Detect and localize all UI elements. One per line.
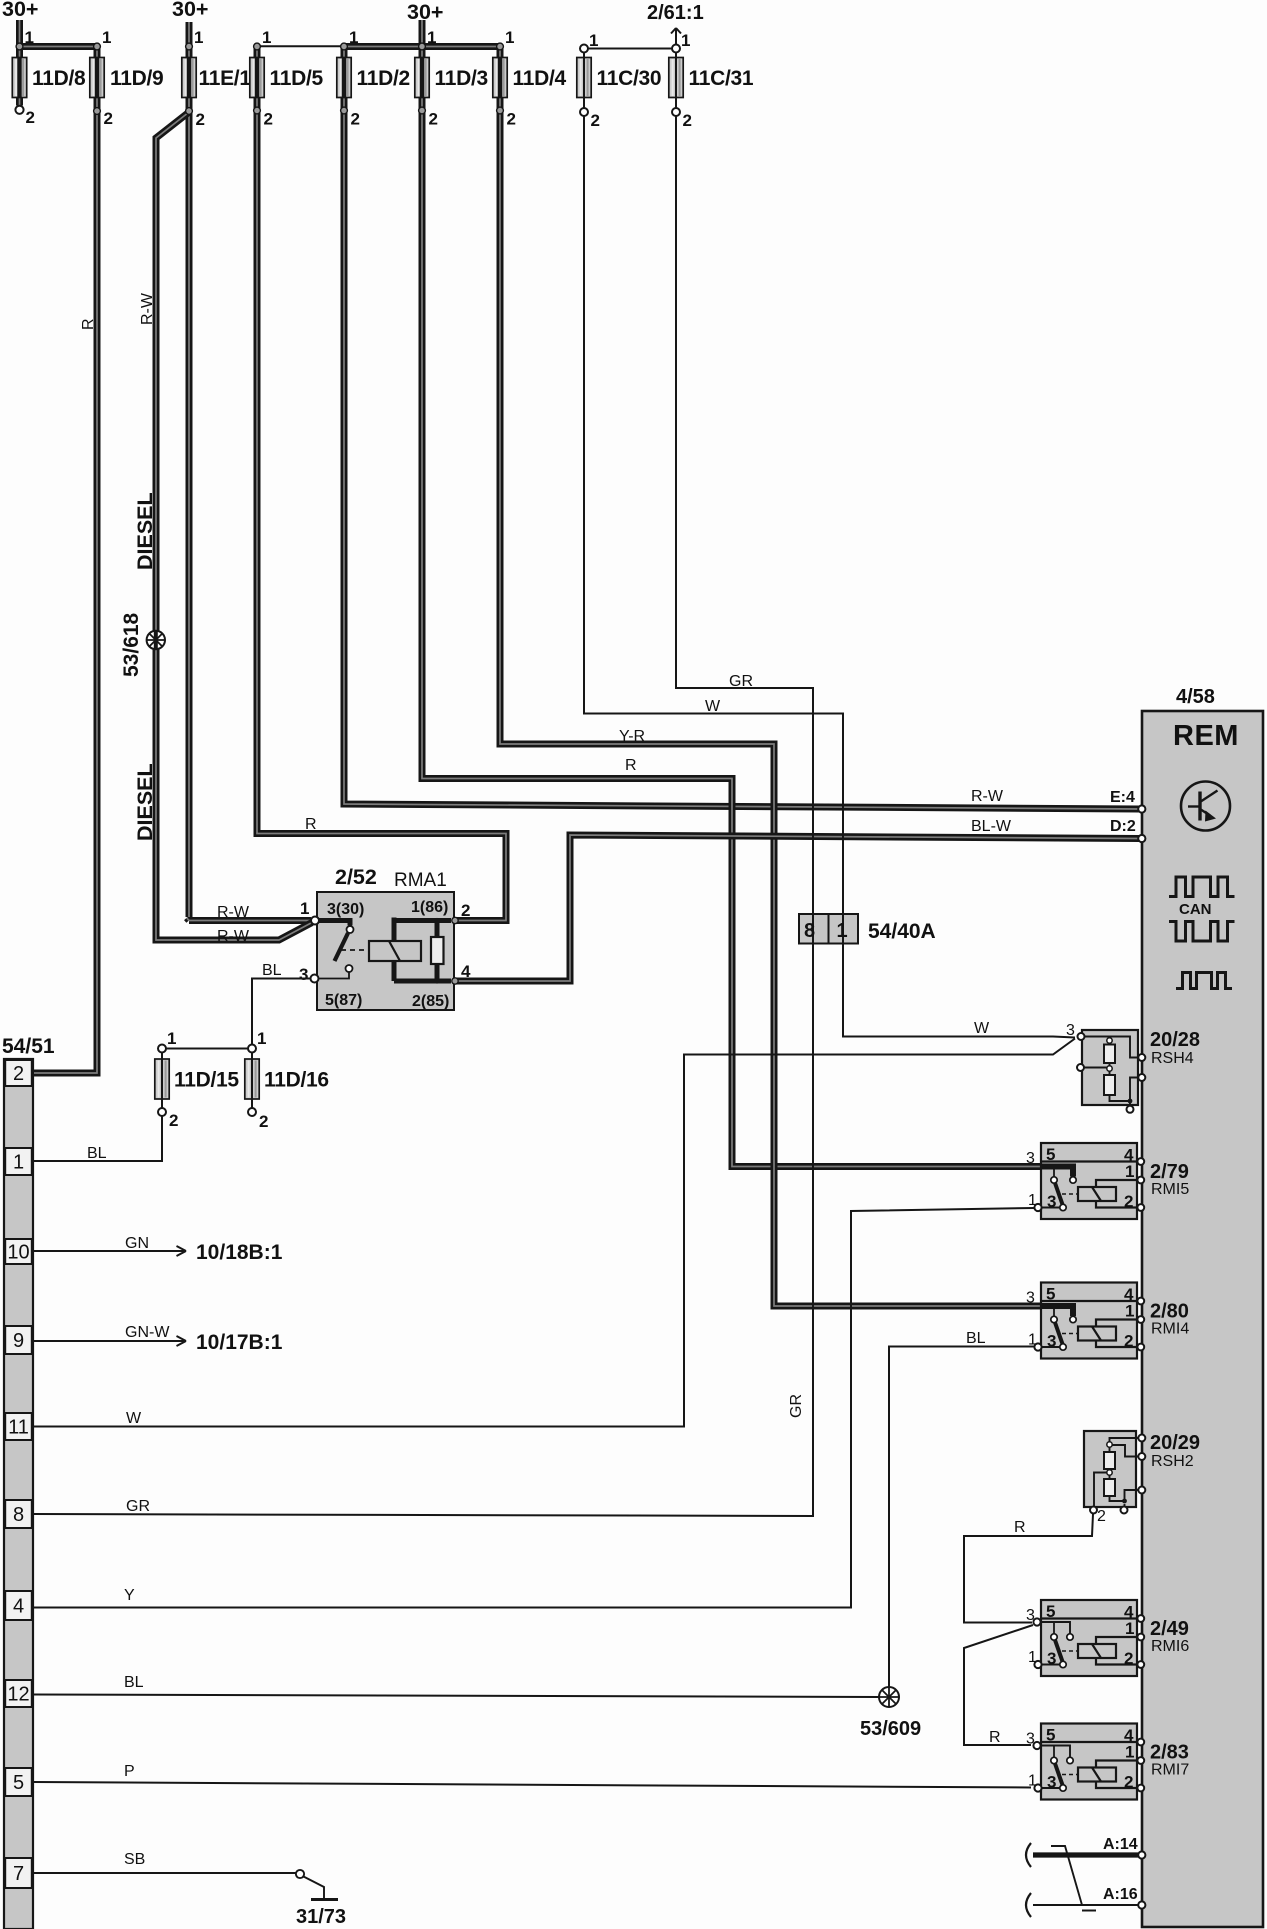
svg-text:RMI4: RMI4: [1151, 1321, 1189, 1338]
terminal 2 of 11C/30: [580, 108, 588, 116]
twisted pair symbol: [1051, 1846, 1096, 1911]
svg-text:5(87): 5(87): [325, 992, 362, 1009]
svg-text:R: R: [989, 1729, 1001, 1746]
svg-text:R: R: [1014, 1519, 1026, 1536]
svg-text:2: 2: [1124, 1649, 1133, 1668]
pin label 1 (2/52 left top): [300, 899, 309, 918]
label terminal 5(87): [325, 992, 362, 1009]
svg-text:2/79: 2/79: [1150, 1161, 1189, 1183]
label CAN: [1179, 901, 1212, 918]
fuse 11D/2: [337, 58, 410, 98]
pin label 3 (2/52 left bottom): [299, 965, 308, 984]
pin label 4 of 2/80: [1124, 1285, 1134, 1304]
pin label 4 of 2/49: [1124, 1603, 1134, 1622]
wire GN-W from 54/51 pin 9 with arrow: [34, 1336, 186, 1346]
label GN-W: [125, 1324, 170, 1341]
svg-text:11E/1: 11E/1: [199, 67, 252, 90]
label RMI6: [1151, 1638, 1189, 1655]
label 10/17B:1: [196, 1331, 283, 1354]
node 2 of 11D/2: [341, 107, 348, 114]
node 2 of 11D/4: [497, 107, 504, 114]
svg-text:2: 2: [1097, 1508, 1106, 1525]
pin label 5 of 2/49: [1046, 1602, 1055, 1621]
svg-text:BL: BL: [87, 1145, 107, 1162]
svg-text:P: P: [124, 1763, 135, 1780]
svg-text:R: R: [80, 318, 97, 330]
REM pin at 2/80 row 4: [1137, 1298, 1144, 1305]
pin label 2 (fuse area 9): [351, 110, 360, 129]
terminal 1 of 11D/16: [248, 1045, 256, 1053]
pin label 1 of 2/79: [1125, 1162, 1134, 1181]
node 1 junction at 2/52 pin 1: [311, 917, 319, 925]
svg-text:1(86): 1(86): [411, 899, 448, 916]
pin label 2 (fuse area 7): [264, 110, 273, 129]
external pin label 3 of 2/79: [1026, 1150, 1035, 1167]
module 4/58 REM body: [1142, 711, 1263, 1927]
node 2 of 11E/1: [186, 108, 193, 115]
svg-text:5: 5: [13, 1772, 24, 1794]
svg-text:5: 5: [1046, 1602, 1055, 1621]
label terminal 3(30): [327, 901, 364, 918]
svg-text:1: 1: [1028, 1773, 1037, 1790]
fuse 11D/15: [155, 1059, 240, 1099]
svg-text:A:16: A:16: [1103, 1886, 1138, 1903]
svg-text:W: W: [705, 698, 721, 715]
pin label 1 of 2/80: [1125, 1302, 1134, 1321]
wire 30+ bus over fuses 11D/2 11D/3 11D/4: [344, 43, 500, 50]
pin label 1 (fuse area 4): [194, 28, 203, 47]
svg-text:1: 1: [427, 28, 436, 47]
pin label 2 (fuse area 11): [429, 110, 438, 129]
terminal 3 of 20/28: [1078, 1033, 1085, 1040]
wire R-W from 30+ through fuse 11E/1 to node at 2/52 pin 1: [187, 22, 311, 921]
svg-text:SB: SB: [124, 1851, 145, 1868]
pin label 3 of 2/79: [1047, 1192, 1056, 1211]
label RSH2: [1151, 1453, 1194, 1470]
fuse 11C/30: [577, 58, 661, 98]
pin label 3 of 2/49: [1047, 1649, 1056, 1668]
pin label 1 of 2/83: [1125, 1743, 1134, 1762]
connector 54/51 pin 8 cell: [5, 1500, 32, 1528]
svg-text:12: 12: [7, 1684, 29, 1706]
svg-text:30+: 30+: [172, 0, 208, 21]
svg-text:3: 3: [1047, 1649, 1056, 1668]
label 53/609: [860, 1718, 921, 1740]
svg-text:W: W: [974, 1020, 990, 1037]
label GR (11C/31 branch): [729, 673, 753, 690]
REM pin at 2/49 row 2: [1137, 1661, 1144, 1668]
label RMA1: [394, 870, 447, 891]
svg-text:8: 8: [804, 920, 815, 942]
connector 54/40A: [799, 914, 858, 944]
REM pin at 20/29 bottom: [1138, 1487, 1145, 1494]
svg-text:Y-R: Y-R: [619, 728, 645, 745]
connector 54/51 pin 1 cell: [5, 1148, 32, 1175]
external pin label 3 of 2/83: [1026, 1731, 1035, 1748]
terminal (unused) of 20/29: [1121, 1507, 1128, 1514]
svg-text:3: 3: [299, 965, 308, 984]
wire R-W from fuse 11D/2 to REM pin E:4: [344, 47, 1139, 810]
terminal 2 of 20/29: [1090, 1507, 1097, 1514]
pin label 3 of 2/80: [1047, 1332, 1056, 1351]
pin label 4 of 2/83: [1124, 1726, 1134, 1745]
fuse 11D/9: [90, 58, 164, 98]
square wave output symbol: [1176, 973, 1232, 989]
label 2/80: [1150, 1301, 1189, 1323]
label W (at 20/28): [974, 1020, 990, 1037]
pin label 3 of 2/83: [1047, 1773, 1056, 1792]
svg-text:2: 2: [1124, 1332, 1133, 1351]
label GR (vertical run): [788, 1394, 805, 1418]
label BL-W (to REM D:2): [971, 818, 1012, 835]
wire Y-R from fuse 11D/4 to relay 2/80 pin 3: [500, 47, 1042, 1307]
label GN: [125, 1235, 149, 1252]
wire BL from 54/51 pin 1: [34, 1160, 156, 1162]
pin label 2 of 2/49: [1124, 1649, 1133, 1668]
svg-text:1: 1: [1028, 1332, 1037, 1349]
svg-text:11C/31: 11C/31: [689, 67, 754, 90]
svg-text:1: 1: [262, 28, 271, 47]
label REM: [1173, 720, 1239, 752]
svg-text:3: 3: [1047, 1192, 1056, 1211]
relay 2/83 RMI7 body: [1041, 1724, 1137, 1800]
svg-text:DIESEL: DIESEL: [133, 492, 157, 570]
svg-text:1: 1: [589, 31, 598, 50]
svg-text:GN: GN: [125, 1235, 149, 1252]
label R (11D/9 wire): [80, 318, 97, 330]
svg-text:54/51: 54/51: [2, 1035, 55, 1058]
wire BL from 54/51 pin 12 to splice 53/609: [34, 1695, 879, 1698]
ground 31/73: [296, 1870, 338, 1900]
REM pin at 20/29 middle: [1138, 1453, 1145, 1460]
label 2/79: [1150, 1161, 1189, 1183]
svg-text:BL: BL: [966, 1330, 986, 1347]
node 1 of 11D/8: [16, 43, 23, 50]
label 54/40A: [868, 920, 936, 943]
wire BL from splice 53/609 to 2/80 pin 1: [889, 1347, 1034, 1688]
svg-text:10: 10: [7, 1242, 29, 1264]
terminal 1 of 2/80: [1034, 1343, 1041, 1350]
wire R from 20/29 pin 2 to 2/49 pin 3: [964, 1514, 1093, 1623]
relay 2/79 switch: [1038, 1167, 1078, 1211]
terminal 2 of 11D/8: [15, 106, 23, 114]
fuse 11D/16: [245, 1059, 329, 1099]
label pin D:2: [1110, 818, 1136, 835]
svg-text:2: 2: [591, 111, 600, 130]
pin label 2 (fuse area 3): [104, 109, 113, 128]
pin label 1 of 11D/16: [257, 1029, 266, 1048]
REM pin A:14: [1138, 1851, 1145, 1858]
REM pin at 2/83 row 2: [1137, 1785, 1144, 1792]
external pin label 3 of 2/80: [1026, 1290, 1035, 1307]
pin label 2 (fuse area 1): [26, 108, 35, 127]
svg-text:20/29: 20/29: [1150, 1432, 1200, 1454]
REM pin at 2/83 row 1: [1137, 1757, 1144, 1764]
svg-text:11C/30: 11C/30: [597, 67, 662, 90]
label 10/18B:1: [196, 1241, 283, 1264]
wire BL from fuse 11D/15 to 54/51 pin 1: [34, 1053, 162, 1162]
svg-text:GR: GR: [729, 673, 753, 690]
terminal 3 of 2/49: [1033, 1618, 1040, 1625]
wire BL from 2/52 pin 3 to fuse 11D/16: [252, 979, 311, 1045]
connector 54/51 pin 12 cell: [5, 1680, 32, 1707]
svg-text:2/49: 2/49: [1150, 1618, 1189, 1640]
CAN square wave lower (inverted): [1169, 922, 1235, 942]
wire link 11C/30 to 11C/31 pin 1: [584, 48, 676, 50]
fuse 11C/31: [669, 58, 754, 98]
relay 2/49 RMI6 body: [1041, 1600, 1137, 1676]
wire A:14 (twisted, cut): [1026, 1843, 1138, 1867]
svg-text:BL-W: BL-W: [971, 818, 1012, 835]
label 54/51: [2, 1035, 55, 1058]
svg-text:3: 3: [1066, 1022, 1075, 1039]
connector 54/51 pin 5 cell: [5, 1768, 32, 1796]
label RMI4: [1151, 1321, 1189, 1338]
fuse 11D/8: [12, 58, 86, 98]
label SB (pin 7 wire): [124, 1851, 145, 1868]
svg-text:1: 1: [167, 1029, 176, 1048]
svg-text:1: 1: [1125, 1743, 1134, 1762]
relay 2/80 switch: [1038, 1306, 1078, 1350]
svg-text:2: 2: [26, 108, 35, 127]
wire R from fuse 11D/5 to 2/52 pin 2: [257, 47, 506, 921]
svg-text:1: 1: [25, 28, 34, 47]
pin label 1 (fuse area 14): [589, 31, 598, 50]
label 31/73: [296, 1906, 346, 1928]
REM pin at 2/80 row 1: [1137, 1316, 1144, 1323]
svg-text:3: 3: [1026, 1290, 1035, 1307]
svg-text:E:4: E:4: [1110, 789, 1135, 806]
REM pin at 2/80 row 2: [1137, 1344, 1144, 1351]
svg-text:D:2: D:2: [1110, 818, 1136, 835]
relay 2/52 internal coil circuit: [369, 918, 451, 984]
svg-text:5: 5: [1046, 1726, 1055, 1745]
svg-text:1: 1: [1125, 1302, 1134, 1321]
label pin E:4: [1110, 789, 1135, 806]
svg-text:R-W: R-W: [217, 904, 250, 921]
svg-text:BL: BL: [262, 962, 282, 979]
relay 2/52 RMA1 body: [317, 892, 454, 1010]
terminal 1 of 11D/15: [158, 1045, 166, 1053]
arrow to 2/61:1: [671, 28, 681, 45]
svg-text:RSH4: RSH4: [1151, 1050, 1194, 1067]
label R (11D/3 branch): [625, 757, 637, 774]
svg-text:1: 1: [1028, 1192, 1037, 1209]
svg-text:53/609: 53/609: [860, 1718, 921, 1740]
svg-text:2: 2: [264, 110, 273, 129]
svg-text:10/17B:1: 10/17B:1: [196, 1331, 283, 1354]
svg-text:2: 2: [429, 110, 438, 129]
label 2/52: [335, 865, 377, 889]
pin label 1 (fuse area 8): [349, 28, 358, 47]
relay 2/79 RMI5 body: [1041, 1143, 1137, 1219]
label R-W (11E/1 branch): [217, 904, 250, 921]
svg-text:2: 2: [259, 1112, 268, 1131]
pin label 2 (fuse area 5): [196, 110, 205, 129]
node 1 of 11E/1: [186, 43, 193, 50]
svg-text:11D/9: 11D/9: [110, 67, 163, 90]
node 2 of 11D/9: [94, 108, 101, 115]
svg-text:2: 2: [104, 109, 113, 128]
REM pin at 20/29 top: [1138, 1435, 1145, 1442]
connector 54/51 pin 7 cell: [5, 1858, 32, 1888]
wire BL-W from 2/52 pin 4 to REM pin D:2: [455, 835, 1139, 981]
label W (11C/30 branch): [705, 698, 721, 715]
pin label 5 of 2/79: [1046, 1145, 1055, 1164]
svg-text:1: 1: [1125, 1619, 1134, 1638]
svg-text:1: 1: [13, 1152, 24, 1174]
svg-text:1: 1: [102, 28, 111, 47]
REM pin at 20/28 upper: [1138, 1054, 1145, 1061]
terminal 1 of 11C/30: [580, 45, 588, 53]
svg-text:30+: 30+: [2, 0, 38, 21]
label R (20/29 wire): [1014, 1519, 1026, 1536]
external pin label 1 of 2/80: [1028, 1332, 1037, 1349]
terminal 1 of 2/83: [1034, 1784, 1041, 1791]
label RMI7: [1151, 1762, 1189, 1779]
svg-text:REM: REM: [1173, 720, 1239, 752]
wire R from fuse 11D/9 to 54/51 pin 2: [34, 47, 97, 1074]
pin label 2 of 2/79: [1124, 1192, 1133, 1211]
label A:16: [1103, 1886, 1138, 1903]
pin label 2 of 20/29: [1097, 1508, 1106, 1525]
terminal 2 of 11D/16: [248, 1108, 256, 1116]
svg-text:2/80: 2/80: [1150, 1301, 1189, 1323]
label R-W (diesel branch): [217, 928, 250, 945]
REM pin at 2/83 row 4: [1137, 1739, 1144, 1746]
connector 54/51 pin 2 cell: [5, 1060, 32, 1086]
splice 53/609: [879, 1687, 899, 1707]
svg-text:1: 1: [1028, 1649, 1037, 1666]
wire Y from 54/51 pin 4 to 2/79 pin 1: [34, 1208, 1034, 1608]
svg-text:2: 2: [169, 1111, 178, 1130]
svg-text:1: 1: [194, 28, 203, 47]
svg-text:2/83: 2/83: [1150, 1742, 1189, 1764]
svg-text:1: 1: [300, 899, 309, 918]
label BL (pin 12 wire): [124, 1674, 144, 1691]
svg-text:R-W: R-W: [139, 292, 156, 325]
pin label 1 (fuse area 0): [25, 28, 34, 47]
svg-text:4/58: 4/58: [1176, 686, 1215, 708]
REM pin D:2: [1138, 835, 1145, 842]
svg-text:3: 3: [1026, 1607, 1035, 1624]
svg-text:20/28: 20/28: [1150, 1029, 1200, 1051]
label BL (pin 1 wire): [87, 1145, 107, 1162]
20/29 internal resistors: [1094, 1438, 1141, 1506]
REM pin A:16: [1138, 1901, 1145, 1908]
label Y (pin 4 wire): [124, 1587, 135, 1604]
wire R from fuse 11D/3 to relay 2/79 pin 3: [422, 20, 1042, 1167]
pin label 2 of 2/80: [1124, 1332, 1133, 1351]
external pin label 1 of 2/79: [1028, 1192, 1037, 1209]
label Y-R (11D/4 branch): [619, 728, 645, 745]
terminal 1 of 2/49: [1034, 1661, 1041, 1668]
relay 2/49 switch: [1038, 1622, 1078, 1668]
svg-text:GR: GR: [788, 1394, 805, 1418]
pin label 1 (fuse area 6): [262, 28, 271, 47]
terminal pin 3 of 2/52: [311, 975, 319, 983]
label 2/61:1: [647, 2, 704, 24]
svg-text:11D/4: 11D/4: [513, 67, 567, 90]
svg-text:1: 1: [505, 28, 514, 47]
wire R-W DIESEL branch to node at 2/52 pin 1: [156, 113, 312, 941]
node 1 of 11D/2: [341, 43, 348, 50]
svg-text:10/18B:1: 10/18B:1: [196, 1241, 283, 1264]
label W (pin 11 wire): [126, 1410, 142, 1427]
relay 2/52 switch: [315, 921, 369, 979]
external pin label 3 of 2/49: [1026, 1607, 1035, 1624]
connector 54/51 pin 4 cell: [5, 1591, 32, 1620]
REM pin at 20/28 lower: [1138, 1074, 1145, 1081]
svg-text:BL: BL: [124, 1674, 144, 1691]
svg-text:R-W: R-W: [217, 928, 250, 945]
wire W from 54/51 pin 11 to 20/28 pin 3: [34, 1039, 1075, 1427]
relay 2/80 internal rows and coil: [1041, 1301, 1137, 1347]
external pin label 1 of 2/83: [1028, 1773, 1037, 1790]
fuse 11D/4: [493, 58, 567, 98]
svg-text:5: 5: [1046, 1285, 1055, 1304]
connector 54/51 pin 11 cell: [5, 1413, 32, 1440]
svg-text:GR: GR: [126, 1498, 150, 1515]
svg-text:3: 3: [1026, 1150, 1035, 1167]
svg-text:11D/2: 11D/2: [357, 67, 410, 90]
svg-text:1: 1: [1125, 1162, 1134, 1181]
svg-text:RSH2: RSH2: [1151, 1453, 1194, 1470]
svg-text:2: 2: [13, 1063, 24, 1085]
label RSH4: [1151, 1050, 1194, 1067]
transistor output symbol inside REM: [1181, 782, 1230, 831]
label GR (pin 8 wire): [126, 1498, 150, 1515]
label P (pin 5 wire): [124, 1763, 135, 1780]
label R (2/83 wire): [989, 1729, 1001, 1746]
svg-text:A:14: A:14: [1103, 1836, 1138, 1853]
label DIESEL upper: [133, 492, 157, 570]
relay 2/83 switch: [1038, 1746, 1078, 1792]
svg-text:RMI5: RMI5: [1151, 1181, 1189, 1198]
wire link 11D/15 to 11D/16 pin 1: [162, 1048, 252, 1050]
relay 2/49 internal rows and coil: [1041, 1619, 1137, 1665]
node pin 4 of 2/52: [452, 978, 458, 984]
wire GN from 54/51 pin 10 with arrow: [34, 1246, 186, 1256]
node 1 of 11D/4: [497, 43, 504, 50]
pin label 2 of 11D/15: [169, 1111, 178, 1130]
wire 30+ feed through fuse 11D/8 column: [16, 20, 23, 106]
wire P from 54/51 pin 5 to 2/83 pin 1: [34, 1782, 1031, 1788]
svg-text:1: 1: [257, 1029, 266, 1048]
power feed 30+ (right): [407, 0, 443, 24]
svg-text:11: 11: [8, 1417, 29, 1439]
node 2 of 11D/3: [419, 107, 426, 114]
label R-W (to REM E:4): [971, 788, 1004, 805]
fuse 11D/5: [250, 58, 324, 98]
label DIESEL lower: [133, 763, 157, 841]
pin label 1 of 11D/15: [167, 1029, 176, 1048]
svg-text:2: 2: [196, 110, 205, 129]
pin label 1 of 2/49: [1125, 1619, 1134, 1638]
pin label 2 (2/52 right top): [461, 901, 470, 920]
wire fuse 11D/16 lower lead: [251, 1053, 253, 1109]
svg-text:2: 2: [1124, 1773, 1133, 1792]
svg-text:11D/3: 11D/3: [435, 67, 488, 90]
svg-text:11D/16: 11D/16: [264, 1069, 329, 1092]
svg-text:Y: Y: [124, 1587, 135, 1604]
label A:14: [1103, 1836, 1138, 1853]
resistor module 20/28 RSH4 body: [1082, 1030, 1138, 1105]
label 2/83: [1150, 1742, 1189, 1764]
REM pin at 2/49 row 4: [1137, 1615, 1144, 1622]
pin label 2 (fuse area 15): [591, 111, 600, 130]
svg-text:RMI7: RMI7: [1151, 1762, 1189, 1779]
